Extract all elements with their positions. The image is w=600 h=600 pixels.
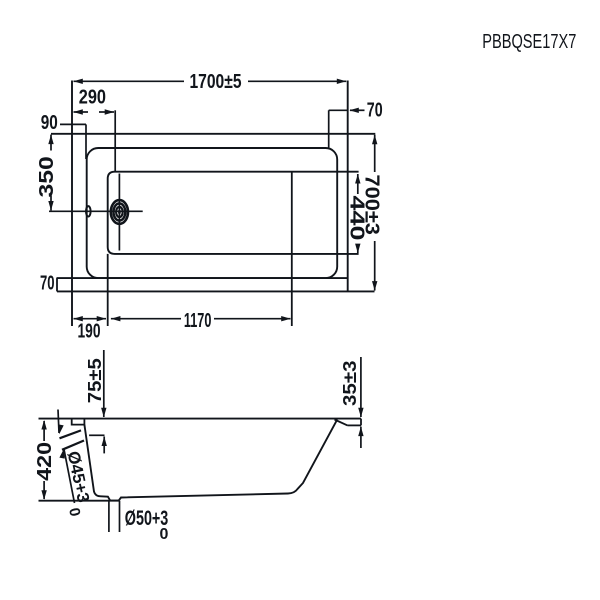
- svg-text:1700±5: 1700±5: [190, 71, 242, 93]
- dim 420 line + arrows: [41, 420, 46, 500]
- svg-text:290: 290: [79, 87, 106, 109]
- svg-text:190: 190: [78, 320, 101, 342]
- dim 1700±5 line left segment + left arrow: [73, 79, 184, 84]
- drain horizontal centerline: [49, 210, 143, 212]
- dim 90 leader horizontal: [60, 123, 86, 125]
- dim text 70 top-right: [367, 100, 383, 122]
- svg-text:70: 70: [367, 100, 383, 122]
- 75±5 lower reference line: [89, 434, 104, 436]
- svg-text:70: 70: [40, 272, 55, 294]
- dim 1700±5 line right segment + right arrow: [248, 79, 346, 84]
- svg-text:35±3: 35±3: [340, 361, 360, 407]
- apron skirt bottom edge (extends right to 700 dim): [57, 290, 375, 292]
- basin interior slope end line: [291, 172, 293, 326]
- dim text 1170: [184, 310, 212, 332]
- dim 1170 line right segment + right arrow: [214, 316, 291, 321]
- dim text 350: [36, 156, 58, 197]
- outer flange top edge (with extensions for 350 and 700 dims): [51, 133, 375, 135]
- svg-text:0: 0: [160, 526, 169, 543]
- svg-text:350: 350: [36, 156, 58, 197]
- dim Ø45 lower arrow + line through text: [59, 449, 74, 503]
- basin outline: top edge, rounded left end, bottom edge (edges extend right as 440 extension lines): [108, 172, 359, 254]
- drain outer ring: [111, 200, 128, 224]
- dim text 440: [345, 196, 367, 241]
- overflow hole ellipse on rim: [86, 206, 91, 216]
- dim 190 line + arrows: [73, 316, 106, 321]
- dim 440 line + arrows: [355, 174, 360, 253]
- side view rim top line (extends left to 420 dim): [39, 418, 362, 420]
- svg-text:90: 90: [41, 112, 58, 134]
- outer flange bottom edge (with left extension for 70 dim): [57, 277, 348, 279]
- dim 70 top-right bracket: [329, 110, 348, 147]
- dim text Ø50+3: [125, 507, 169, 530]
- dim 35±3 line + down arrow: [358, 357, 363, 417]
- dim text Ø50 zero: [160, 526, 169, 543]
- dim text Ø45+3: [64, 449, 93, 504]
- dim 290 right arrow stub: [99, 109, 114, 114]
- side view rim notch at drain end: [72, 419, 85, 425]
- side view left interior wall slope, bottom, drain recess, right slope: [84, 420, 337, 501]
- dim text 700±3: [361, 175, 383, 235]
- dim Ø50 extension lines from drain recess: [109, 501, 120, 532]
- dim 700±3 line + arrows: [372, 135, 377, 291]
- dim 290 right extension line: [114, 110, 116, 171]
- svg-text:440: 440: [345, 196, 367, 241]
- dim text 190: [78, 320, 101, 342]
- overflow hole edge marks on slope: [60, 430, 85, 449]
- dim Ø45 upper arrow + shaft: [58, 410, 64, 435]
- dim text 420: [34, 442, 56, 481]
- dim 1170 line left segment + left arrow: [111, 316, 181, 321]
- drain ring 2: [114, 203, 126, 220]
- dim text 70 bottom-left: [40, 272, 55, 294]
- dim 35±3 lower up arrow: [358, 427, 363, 448]
- title PBBQSE17X7: [482, 31, 576, 53]
- dim 75±5 lower up arrow: [102, 437, 107, 454]
- dim 420 top/bottom extension is rim line and bottom line: [39, 500, 120, 502]
- side view right end step bevel: [335, 419, 362, 426]
- dim text Ø45 zero: [65, 506, 83, 518]
- svg-text:PBBQSE17X7: PBBQSE17X7: [482, 31, 576, 53]
- dim text 290: [79, 87, 106, 109]
- dim 90 leader vertical drop to rim edge: [85, 124, 87, 159]
- dim 70 top-right arrow: [349, 108, 364, 113]
- outer flange left edge (extends up to 1700 dim, down to 190 dim): [71, 81, 73, 327]
- dim 75±5 line + down arrow onto rim: [101, 350, 106, 417]
- svg-text:1170: 1170: [184, 310, 212, 332]
- drain ring 4 innermost: [118, 209, 121, 214]
- dim 350 line + arrows: [48, 135, 53, 211]
- drain ring 3: [116, 207, 123, 217]
- rim rounded rectangle: [87, 148, 338, 278]
- dim text 90: [41, 112, 58, 134]
- svg-text:420: 420: [34, 442, 56, 481]
- dim text 75±5: [85, 358, 105, 403]
- drain vertical centerline: [118, 174, 120, 251]
- dim text 35±3: [340, 361, 360, 407]
- dim text 1700±5: [190, 71, 242, 93]
- svg-text:75±5: 75±5: [85, 358, 105, 403]
- apron skirt left cap / 70 dim line: [56, 278, 58, 291]
- outer flange right edge (extends up to 1700 dim, down past skirt): [347, 81, 349, 292]
- svg-text:0: 0: [65, 506, 83, 518]
- basin left edge extension down to 190/1170 dims: [107, 254, 109, 326]
- dim 290 left arrow stub: [73, 109, 88, 114]
